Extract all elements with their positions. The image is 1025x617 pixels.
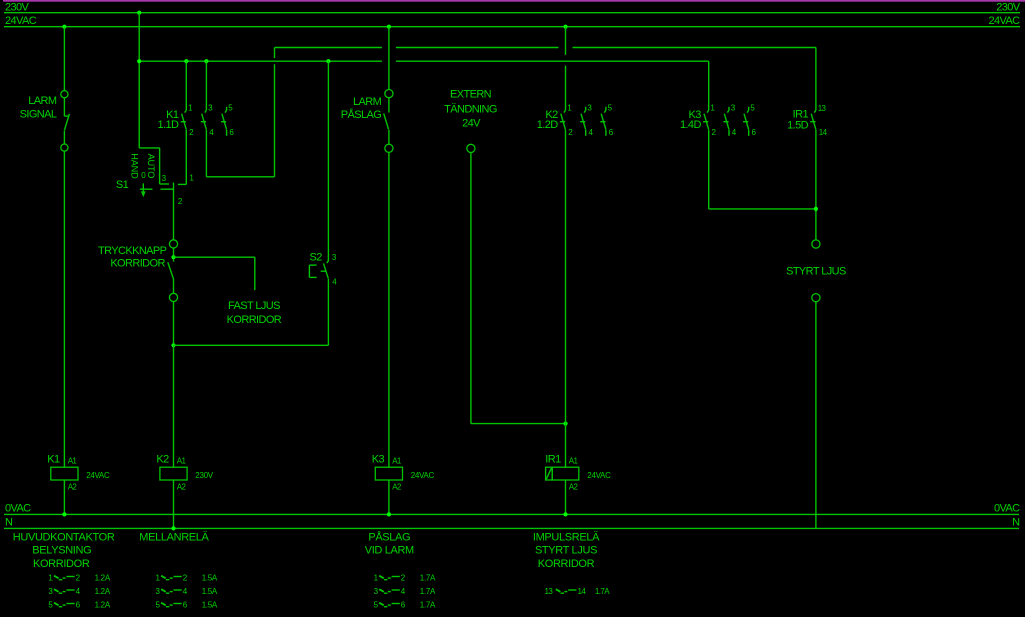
svg-text:24VAC: 24VAC	[988, 15, 1020, 27]
svg-text:KORRIDOR: KORRIDOR	[110, 258, 165, 270]
svg-text:230V: 230V	[996, 2, 1021, 14]
svg-text:K1: K1	[47, 454, 60, 466]
svg-text:1.7A: 1.7A	[420, 587, 436, 596]
svg-text:A2: A2	[569, 482, 579, 491]
svg-text:S2: S2	[310, 252, 323, 264]
svg-text:A1: A1	[392, 456, 402, 465]
svg-text:1.5D: 1.5D	[787, 120, 808, 132]
svg-text:LARM: LARM	[28, 95, 57, 107]
svg-text:VID LARM: VID LARM	[365, 545, 414, 557]
svg-text:13: 13	[545, 587, 554, 596]
svg-text:STYRT LJUS: STYRT LJUS	[535, 545, 597, 557]
svg-text:MELLANRELÄ: MELLANRELÄ	[139, 531, 209, 543]
svg-text:13: 13	[818, 104, 827, 113]
svg-text:1.2A: 1.2A	[95, 600, 111, 609]
svg-text:1.7A: 1.7A	[420, 600, 436, 609]
svg-text:24VAC: 24VAC	[5, 15, 37, 27]
svg-text:1.4D: 1.4D	[680, 119, 701, 131]
svg-text:FAST LJUS: FAST LJUS	[228, 300, 280, 312]
svg-text:230V: 230V	[5, 2, 30, 14]
svg-text:1.5A: 1.5A	[202, 587, 218, 596]
svg-text:1.7A: 1.7A	[420, 573, 436, 582]
svg-text:1.2A: 1.2A	[95, 587, 111, 596]
svg-text:IMPULSRELÄ: IMPULSRELÄ	[533, 531, 600, 543]
svg-text:AUTO: AUTO	[146, 154, 156, 179]
svg-text:IR1: IR1	[545, 454, 561, 466]
svg-text:A1: A1	[569, 456, 579, 465]
svg-text:1.1D: 1.1D	[158, 119, 179, 131]
svg-text:230V: 230V	[195, 471, 213, 480]
svg-text:KORRIDOR: KORRIDOR	[538, 558, 595, 570]
svg-text:LARM: LARM	[353, 96, 382, 108]
svg-text:24VAC: 24VAC	[86, 471, 110, 480]
svg-text:14: 14	[578, 587, 587, 596]
svg-text:24V: 24V	[462, 118, 481, 130]
svg-text:KORRIDOR: KORRIDOR	[227, 314, 282, 326]
svg-text:24VAC: 24VAC	[587, 471, 611, 480]
svg-text:A1: A1	[177, 456, 187, 465]
svg-text:24VAC: 24VAC	[411, 471, 435, 480]
svg-text:A2: A2	[177, 482, 187, 491]
svg-text:1.5A: 1.5A	[202, 573, 218, 582]
svg-text:TRYCKKNAPP: TRYCKKNAPP	[98, 245, 167, 257]
svg-text:S1: S1	[116, 179, 129, 191]
svg-text:A1: A1	[68, 456, 78, 465]
svg-text:PÅSLAG: PÅSLAG	[368, 530, 410, 543]
svg-text:TÄNDNING: TÄNDNING	[444, 103, 497, 115]
svg-text:0VAC: 0VAC	[5, 503, 31, 515]
svg-text:STYRT LJUS: STYRT LJUS	[786, 266, 846, 278]
svg-text:K3: K3	[372, 454, 385, 466]
svg-text:HAND: HAND	[130, 153, 140, 179]
svg-text:A2: A2	[68, 482, 78, 491]
svg-text:KORRIDOR: KORRIDOR	[33, 558, 90, 570]
svg-text:1.2A: 1.2A	[95, 573, 111, 582]
svg-text:SIGNAL: SIGNAL	[20, 109, 57, 121]
svg-text:1.2D: 1.2D	[537, 119, 558, 131]
svg-text:1.5A: 1.5A	[202, 600, 218, 609]
svg-text:EXTERN: EXTERN	[450, 88, 492, 100]
svg-text:14: 14	[819, 128, 828, 137]
svg-text:0VAC: 0VAC	[994, 503, 1020, 515]
svg-text:1.7A: 1.7A	[595, 587, 610, 596]
svg-text:HUVUDKONTAKTOR: HUVUDKONTAKTOR	[13, 531, 115, 543]
svg-text:PÅSLAG: PÅSLAG	[341, 108, 381, 121]
svg-text:BELYSNING: BELYSNING	[32, 545, 91, 557]
svg-text:N: N	[5, 517, 13, 529]
svg-text:N: N	[1012, 517, 1020, 529]
svg-text:A2: A2	[392, 482, 402, 491]
svg-text:K2: K2	[156, 454, 169, 466]
